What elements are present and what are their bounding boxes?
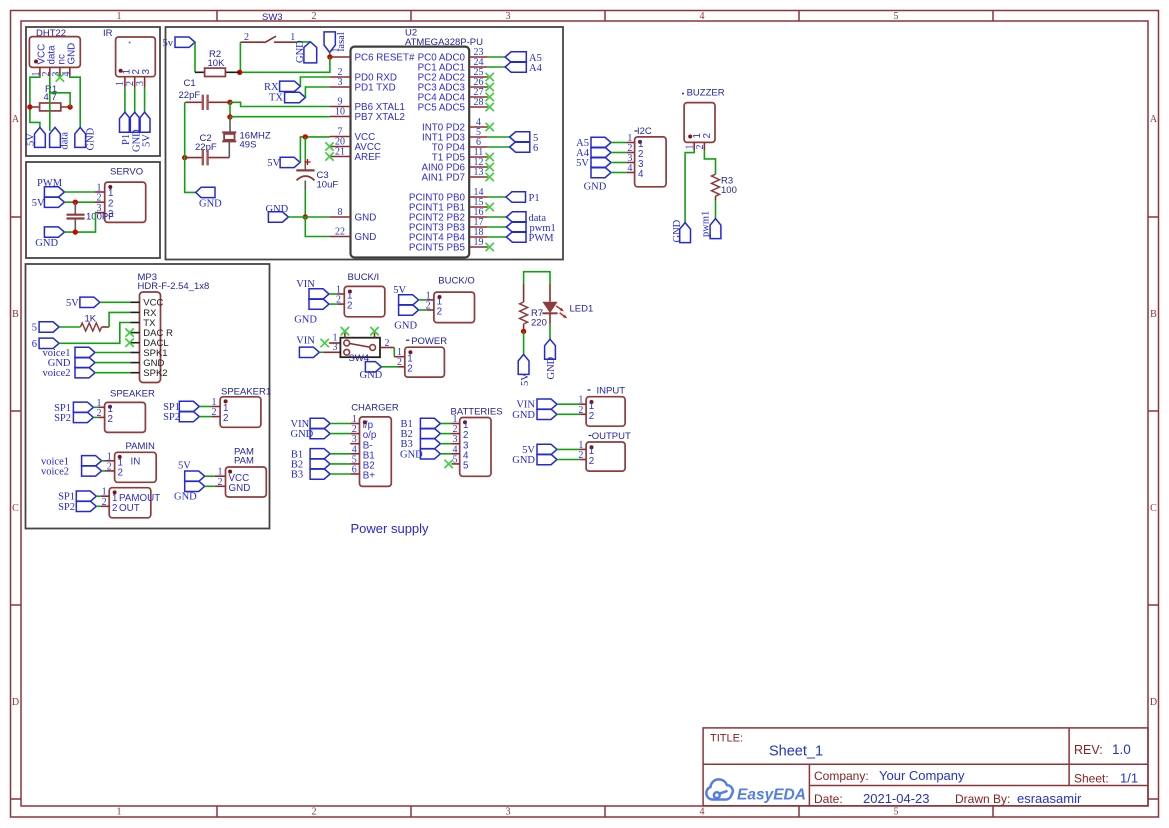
SPEAKER pin 2 bbox=[99, 416, 105, 418]
BATTERIES pin 1 bbox=[452, 423, 460, 425]
svg-text:4: 4 bbox=[700, 11, 705, 22]
wire GND to GND pin bbox=[95, 362, 130, 364]
svg-text:5V: 5V bbox=[267, 158, 280, 169]
svg-text:5: 5 bbox=[463, 461, 469, 472]
buzzer BUZZER bbox=[682, 93, 684, 95]
wire pin18 to PWM bbox=[488, 236, 507, 238]
port GND (crystal) bbox=[196, 187, 215, 197]
svg-text:2: 2 bbox=[589, 411, 594, 422]
svg-text:GND: GND bbox=[355, 232, 377, 243]
svg-text:B: B bbox=[1150, 309, 1157, 320]
svg-text:data: data bbox=[60, 132, 71, 150]
svg-text:OUTPUT: OUTPUT bbox=[592, 431, 631, 442]
port data (DHT22) bbox=[50, 127, 61, 147]
svg-text:5V: 5V bbox=[66, 298, 79, 309]
LED LED1 bbox=[549, 284, 551, 302]
SPEAKER pin 1 bbox=[99, 406, 105, 408]
wire RX to pin2 bbox=[300, 77, 330, 86]
svg-text:1K: 1K bbox=[85, 314, 97, 325]
svg-text:2: 2 bbox=[108, 414, 113, 425]
svg-text:GND: GND bbox=[199, 199, 222, 210]
EasyEDA logo bbox=[706, 779, 732, 799]
svg-text:IR: IR bbox=[103, 28, 113, 39]
port pwm1 (BUZZER) bbox=[710, 219, 721, 239]
wire BUZZER pin1 to GND bbox=[685, 150, 694, 223]
svg-text:B+: B+ bbox=[363, 471, 376, 482]
U2 pin 16 PCINT2 PB2 bbox=[469, 216, 488, 218]
wire VIN bbox=[329, 293, 337, 295]
U2 pin 12 AIN0 PD6 bbox=[469, 166, 488, 168]
wire 1K to RX bbox=[109, 312, 130, 327]
svg-text:2: 2 bbox=[107, 461, 112, 472]
svg-text:5v: 5v bbox=[163, 38, 174, 49]
port pwm1 bbox=[506, 222, 526, 232]
svg-text:28: 28 bbox=[474, 97, 484, 108]
svg-text:5: 5 bbox=[32, 323, 37, 334]
OUTPUT pin 2 bbox=[579, 459, 586, 461]
svg-text:6: 6 bbox=[352, 465, 357, 476]
wire 5V bbox=[557, 448, 579, 450]
wire R3 to pwm1 bbox=[715, 200, 717, 219]
no-connect BATTERIES pin5 bbox=[445, 460, 453, 468]
wire DHT22 pin1 to 5V bbox=[30, 76, 40, 127]
svg-text:Sheet_1: Sheet_1 bbox=[769, 744, 823, 760]
CHARGER pin 2 o/p bbox=[350, 433, 359, 435]
junction R7 bottom bbox=[521, 329, 526, 334]
POWER pin 1 bbox=[398, 356, 405, 358]
U2 pin 8 GND bbox=[330, 216, 351, 218]
svg-text:2: 2 bbox=[112, 503, 117, 514]
svg-text:2: 2 bbox=[118, 468, 123, 479]
BATTERIES pin 4 bbox=[452, 453, 460, 455]
wire C3 to GND rail bbox=[304, 190, 306, 217]
no-connect AREF bbox=[325, 152, 333, 160]
svg-text:PC6 RESET#: PC6 RESET# bbox=[355, 52, 415, 63]
wire B3 bbox=[440, 443, 451, 445]
PAMOUT pin 1 PAMOUT bbox=[101, 495, 109, 497]
wire GND bbox=[611, 172, 626, 174]
SERVO pin 3 bbox=[95, 212, 105, 214]
svg-text:A: A bbox=[1150, 114, 1158, 125]
I2C pin 2 bbox=[626, 152, 634, 154]
svg-text:Company:: Company: bbox=[814, 769, 869, 783]
BATTERIES pin 5 bbox=[452, 463, 460, 465]
port data bbox=[506, 212, 526, 222]
svg-text:GND: GND bbox=[512, 455, 535, 466]
wire VIN bbox=[557, 403, 579, 405]
wire B1 bbox=[440, 423, 451, 425]
PAMIN pin 1 bbox=[105, 460, 115, 462]
svg-text:SPEAKER: SPEAKER bbox=[110, 389, 155, 400]
svg-text:RX: RX bbox=[264, 82, 279, 93]
svg-text:2: 2 bbox=[108, 198, 113, 209]
INPUT pin 1 bbox=[579, 403, 586, 405]
svg-text:8: 8 bbox=[338, 207, 343, 218]
wire B3 bbox=[330, 473, 350, 475]
port lasal (reset) bbox=[324, 32, 335, 53]
svg-text:BUCK/I: BUCK/I bbox=[348, 272, 380, 283]
U2 pin 4 INT0 PD2 bbox=[469, 126, 488, 128]
U2 pin 5 INT1 PD3 bbox=[469, 136, 488, 138]
port A4 bbox=[505, 62, 526, 72]
U2 pin 18 PCINT4 PB4 bbox=[469, 236, 488, 238]
capacitor C3 10uF bbox=[304, 137, 306, 160]
wire 5V to VCC bbox=[100, 301, 130, 303]
svg-text:B: B bbox=[12, 309, 19, 320]
svg-text:5: 5 bbox=[453, 454, 458, 465]
svg-text:GND: GND bbox=[672, 219, 683, 242]
wire pin16 to data bbox=[488, 216, 507, 218]
no-connect pin 28 bbox=[486, 103, 494, 111]
svg-text:10uF: 10uF bbox=[317, 180, 339, 191]
svg-text:Sheet:: Sheet: bbox=[1074, 772, 1109, 786]
wire DHT22 pin4 to GND bbox=[70, 76, 80, 127]
U2 pin 15 PCINT1 PB1 bbox=[469, 206, 488, 208]
junction servo cap top bbox=[73, 200, 78, 205]
wire GND bbox=[557, 413, 579, 415]
wire IR pin 2 bbox=[134, 88, 136, 113]
junction servo cap bottom bbox=[73, 229, 78, 234]
INPUT pin 2 bbox=[579, 413, 586, 415]
MP3 pin 8 SPK2 bbox=[130, 372, 139, 374]
port P1 bbox=[506, 192, 526, 202]
svg-text:PD1 TXD: PD1 TXD bbox=[355, 82, 396, 93]
wire voice2 bbox=[102, 470, 105, 472]
U2 pin 24 PC1 ADC1 bbox=[469, 66, 488, 68]
svg-text:voice2: voice2 bbox=[41, 466, 69, 477]
wire GND bbox=[440, 453, 451, 455]
I2C pin 1 bbox=[626, 142, 634, 144]
svg-text:BUCK/O: BUCK/O bbox=[438, 276, 474, 287]
PAM pin 2 GND bbox=[215, 485, 226, 487]
no-connect pin 4 bbox=[486, 123, 494, 131]
wire C1/C2 left to GND bbox=[185, 102, 196, 192]
wire 5V to SERVO pin2 bbox=[64, 201, 95, 203]
svg-text:22pF: 22pF bbox=[195, 142, 217, 153]
no-connect pin 26 bbox=[486, 83, 494, 91]
svg-text:TITLE:: TITLE: bbox=[710, 733, 743, 745]
amplifier output PAMOUT bbox=[109, 488, 151, 518]
U2 pin 26 PC3 ADC3 bbox=[469, 86, 488, 88]
no-connect AVCC bbox=[325, 142, 333, 150]
wire GND to pin8 bbox=[305, 216, 330, 218]
wire R1 to data bbox=[50, 93, 70, 107]
group box MCU bbox=[166, 27, 564, 260]
no-connect DAC R bbox=[125, 328, 133, 336]
svg-text:PAMIN: PAMIN bbox=[126, 441, 156, 452]
svg-text:C: C bbox=[12, 503, 19, 514]
svg-text:2021-04-23: 2021-04-23 bbox=[863, 791, 930, 806]
wire SP2 bbox=[96, 505, 101, 507]
svg-text:22pF: 22pF bbox=[179, 90, 201, 101]
wire GND to pin22 bbox=[305, 217, 330, 237]
svg-text:5V: 5V bbox=[520, 373, 531, 386]
svg-text:2: 2 bbox=[589, 456, 594, 467]
wire 5v down to R2 bbox=[194, 42, 196, 72]
no-connect pin 12 bbox=[486, 163, 494, 171]
wire GND flag to node bbox=[288, 216, 305, 218]
junction C1 right bbox=[227, 100, 232, 105]
svg-text:INPUT: INPUT bbox=[597, 386, 626, 397]
MP3 pin 1 VCC bbox=[130, 301, 139, 303]
U2 pin 1 PC6 RESET# bbox=[330, 56, 351, 58]
wire port5 to 1K bbox=[59, 326, 80, 328]
svg-text:SW3: SW3 bbox=[262, 12, 283, 23]
svg-text:3: 3 bbox=[338, 77, 343, 88]
U2 pin 19 PCINT5 PB5 bbox=[469, 246, 488, 248]
wire LED loop top bbox=[524, 272, 550, 284]
CHARGER pin 5 B2 bbox=[350, 463, 359, 465]
MP3 pin 2 RX bbox=[130, 311, 139, 313]
junction R1 left bbox=[27, 104, 32, 109]
no-connect SW4 pin1 bbox=[321, 339, 329, 347]
MP3 pin 7 GND bbox=[130, 362, 139, 364]
wire C1 to XTAL1 pin9 bbox=[230, 102, 330, 106]
no-connect pin 11 bbox=[486, 153, 494, 161]
svg-text:2: 2 bbox=[223, 413, 228, 424]
wire SP2 bbox=[93, 416, 98, 418]
wire VIN bbox=[330, 423, 350, 425]
U2 pin 28 PC5 ADC5 bbox=[469, 106, 488, 108]
wire IR pin 1 bbox=[124, 88, 126, 113]
wire TX to pin3 bbox=[305, 87, 330, 98]
junction XTAL2 node bbox=[227, 114, 232, 119]
svg-text:5V: 5V bbox=[576, 158, 589, 169]
group box SERVO bbox=[26, 162, 160, 258]
svg-text:2: 2 bbox=[347, 301, 352, 312]
no-connect pin 19 bbox=[486, 243, 494, 251]
svg-text:5V: 5V bbox=[141, 134, 152, 147]
svg-text:5: 5 bbox=[894, 11, 899, 22]
U2 pin 2 PD0 RXD bbox=[330, 76, 351, 78]
svg-text:POWER: POWER bbox=[411, 336, 447, 347]
svg-text:49S: 49S bbox=[240, 140, 257, 151]
no-connect pin 25 bbox=[486, 73, 494, 81]
port 5 bbox=[510, 132, 530, 142]
title block bbox=[703, 728, 1148, 806]
junction R1 right bbox=[67, 104, 72, 109]
wire pin24 to A4 bbox=[488, 66, 505, 68]
svg-text:P1: P1 bbox=[121, 134, 132, 145]
wire SW3 to GND flag bbox=[297, 41, 310, 43]
svg-text:1: 1 bbox=[117, 807, 122, 818]
wire B2 bbox=[330, 463, 350, 465]
svg-text:GND: GND bbox=[229, 483, 251, 494]
svg-text:6: 6 bbox=[32, 339, 37, 350]
wire lasal to pin1 bbox=[329, 53, 331, 58]
capacitor 100PF bbox=[74, 202, 76, 214]
PAM pin 1 VCC bbox=[215, 475, 226, 477]
svg-text:22: 22 bbox=[335, 227, 345, 238]
wire pin14 to P1 bbox=[488, 196, 506, 198]
no-connect pin 15 bbox=[486, 203, 494, 211]
svg-text:2: 2 bbox=[407, 363, 412, 374]
svg-text:GND: GND bbox=[294, 315, 317, 326]
MP3 pin 5 DACL bbox=[130, 342, 139, 344]
port 5V (LED) bbox=[518, 354, 529, 374]
port 6 bbox=[510, 142, 530, 152]
U2 pin 25 PC2 ADC2 bbox=[469, 76, 488, 78]
svg-text:PC5 ADC5: PC5 ADC5 bbox=[418, 102, 466, 113]
no-connect pin 13 bbox=[486, 173, 494, 181]
wire to XTAL2 pin10 bbox=[230, 116, 330, 118]
svg-text:3: 3 bbox=[141, 69, 152, 75]
svg-text:1: 1 bbox=[331, 48, 342, 53]
wire 5V bbox=[419, 299, 427, 301]
svg-text:C1: C1 bbox=[184, 78, 196, 89]
wire SP1 bbox=[199, 406, 211, 408]
svg-text:2: 2 bbox=[212, 407, 217, 418]
U2 pin 14 PCINT0 PB0 bbox=[469, 196, 488, 198]
CHARGER pin 1 i/p bbox=[350, 423, 359, 425]
U2 pin 10 PB7 XTAL2 bbox=[330, 116, 351, 118]
svg-text:GND: GND bbox=[584, 182, 607, 193]
U2 pin 9 PB6 XTAL1 bbox=[330, 106, 351, 108]
wire pin5 to port 5 bbox=[488, 136, 510, 138]
svg-text:220: 220 bbox=[531, 318, 547, 329]
switch SW4 bbox=[340, 338, 380, 358]
svg-text:GND: GND bbox=[355, 212, 377, 223]
resistor R3 100 bbox=[712, 174, 720, 196]
CHARGER pin 3 B- bbox=[350, 443, 359, 445]
svg-text:OUT: OUT bbox=[119, 503, 140, 514]
junction C2 left bbox=[182, 155, 187, 160]
svg-text:Power supply: Power supply bbox=[351, 521, 430, 536]
svg-text:3: 3 bbox=[506, 11, 511, 22]
svg-text:3: 3 bbox=[135, 81, 146, 86]
MP3 pin 6 SPK1 bbox=[130, 352, 139, 354]
svg-text:2: 2 bbox=[97, 193, 102, 204]
junction GND node bbox=[303, 214, 308, 219]
svg-text:C: C bbox=[1150, 503, 1157, 514]
wire LED to GND bbox=[549, 324, 551, 339]
svg-text:LED1: LED1 bbox=[570, 304, 594, 315]
svg-text:Date:: Date: bbox=[814, 792, 843, 806]
U2 pin 7 VCC bbox=[330, 136, 351, 138]
port 5V (IR) bbox=[139, 112, 150, 132]
BATTERIES pin 3 bbox=[452, 443, 460, 445]
svg-text:2: 2 bbox=[102, 497, 107, 508]
SERVO pin 1 bbox=[95, 191, 105, 193]
svg-text:2: 2 bbox=[312, 11, 317, 22]
svg-text:HDR-F-2.54_1x8: HDR-F-2.54_1x8 bbox=[138, 281, 210, 292]
wire GND bbox=[329, 303, 337, 305]
svg-text:BATTERIES: BATTERIES bbox=[451, 406, 503, 417]
svg-text:TX: TX bbox=[269, 93, 283, 104]
junction VCC/C3 bbox=[303, 134, 308, 139]
U2 pin 20 AVCC bbox=[330, 146, 351, 148]
POWER pin 2 bbox=[398, 366, 405, 368]
wire B1 bbox=[330, 453, 350, 455]
svg-text:esraasamir: esraasamir bbox=[1017, 791, 1082, 806]
wire pin17 to pwm1 bbox=[488, 226, 507, 228]
CHARGER pin 4 B1 bbox=[350, 453, 359, 455]
svg-text:19: 19 bbox=[474, 237, 484, 248]
PAMOUT pin 2 OUT bbox=[101, 505, 109, 507]
BUCK/O pin 1 bbox=[427, 299, 434, 301]
wire 5V bbox=[611, 162, 626, 164]
svg-text:SP2: SP2 bbox=[163, 412, 180, 423]
svg-text:1/1: 1/1 bbox=[1120, 771, 1138, 786]
connector I2C bbox=[635, 130, 638, 132]
U2 pin 11 T1 PD5 bbox=[469, 156, 488, 158]
svg-text:Your Company: Your Company bbox=[879, 768, 965, 783]
svg-text:3: 3 bbox=[333, 342, 338, 353]
svg-text:6: 6 bbox=[533, 143, 538, 154]
wire SP1 bbox=[96, 495, 101, 497]
wire GND bbox=[557, 459, 579, 461]
svg-text:GND: GND bbox=[35, 238, 58, 249]
svg-text:4: 4 bbox=[638, 169, 644, 180]
wire pin23 to A5 bbox=[488, 56, 505, 58]
svg-text:2: 2 bbox=[437, 307, 442, 318]
U2 pin 27 PC4 ADC4 bbox=[469, 96, 488, 98]
wire A5 bbox=[611, 142, 626, 144]
svg-text:BUZZER: BUZZER bbox=[687, 87, 725, 98]
svg-text:2: 2 bbox=[695, 145, 706, 150]
svg-text:SP2: SP2 bbox=[58, 502, 75, 513]
wire SP1 bbox=[93, 406, 98, 408]
svg-text:P1: P1 bbox=[529, 193, 540, 204]
SERVO pin 2 bbox=[95, 201, 105, 203]
svg-text:Drawn By:: Drawn By: bbox=[955, 792, 1010, 806]
no-connect pin 27 bbox=[486, 93, 494, 101]
PAMIN pin 2 bbox=[105, 470, 115, 472]
port GND (BUZZER) bbox=[680, 223, 691, 243]
svg-text:2: 2 bbox=[218, 477, 223, 488]
BUCK/I pin 2 bbox=[337, 303, 344, 305]
wire BUZZER pin2 to R3 bbox=[704, 150, 715, 174]
crystal 16MHZ 49S bbox=[229, 117, 231, 132]
svg-text:A4: A4 bbox=[529, 63, 543, 74]
svg-text:100PF: 100PF bbox=[86, 212, 114, 223]
wire 5V bbox=[205, 475, 215, 477]
junction R2 right bbox=[237, 70, 242, 75]
wire IR pin 3 bbox=[144, 88, 146, 113]
port A5 bbox=[505, 52, 526, 62]
wire port6 to TX bbox=[59, 323, 130, 344]
svg-text:3: 3 bbox=[506, 807, 511, 818]
SPEAKER1 pin 2 bbox=[212, 416, 221, 418]
svg-text:B3: B3 bbox=[291, 470, 303, 481]
U2 pin 23 PC0 ADC0 bbox=[469, 56, 488, 58]
no-connect DHT22 pin3 bbox=[56, 73, 64, 81]
U2 pin 17 PCINT3 PB3 bbox=[469, 226, 488, 228]
wire C1 down to C2/crystal bbox=[229, 102, 231, 117]
port GND (IR) bbox=[129, 112, 140, 132]
no-connect DACL bbox=[125, 339, 133, 347]
group box MP3 bbox=[26, 264, 270, 529]
wire voice1 bbox=[102, 460, 105, 462]
svg-text:voice2: voice2 bbox=[43, 368, 71, 379]
SPEAKER1 pin 1 bbox=[212, 406, 221, 408]
svg-text:GND: GND bbox=[546, 356, 557, 379]
svg-text:SPK2: SPK2 bbox=[143, 368, 167, 379]
svg-text:VIN: VIN bbox=[296, 336, 315, 347]
svg-text:5V: 5V bbox=[32, 198, 45, 209]
port PWM bbox=[506, 232, 526, 242]
wire DHT22 pin2 to data port bbox=[49, 76, 51, 131]
wire 5V up to pin7 bbox=[300, 137, 330, 163]
svg-text:D: D bbox=[12, 697, 19, 708]
svg-text:SP2: SP2 bbox=[54, 413, 71, 424]
svg-text:GND: GND bbox=[394, 321, 417, 332]
resistor R7 220 bbox=[523, 284, 525, 302]
svg-text:13: 13 bbox=[474, 167, 484, 178]
svg-text:I2C: I2C bbox=[637, 126, 652, 137]
wire GND bbox=[330, 433, 350, 435]
CHARGER pin 6 B+ bbox=[350, 473, 359, 475]
